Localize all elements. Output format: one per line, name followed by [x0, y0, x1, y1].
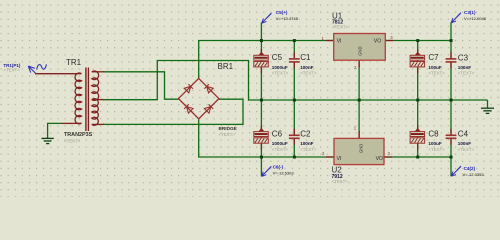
- svg-text:100nF: 100nF: [300, 65, 313, 70]
- svg-text:<TEXT>: <TEXT>: [272, 147, 289, 152]
- svg-text:<TEXT>: <TEXT>: [219, 132, 236, 137]
- svg-text:TR1: TR1: [66, 58, 82, 67]
- svg-text:C3: C3: [458, 53, 469, 62]
- svg-text:100uF: 100uF: [428, 141, 441, 146]
- svg-text:<TEXT>: <TEXT>: [458, 147, 475, 152]
- svg-text:C6: C6: [272, 129, 283, 138]
- svg-text:100nF: 100nF: [458, 141, 471, 146]
- svg-text:VI: VI: [337, 38, 342, 44]
- svg-text:C2: C2: [300, 129, 311, 138]
- svg-text:<TEXT>: <TEXT>: [300, 71, 317, 76]
- svg-text:<TEXT>: <TEXT>: [428, 147, 445, 152]
- svg-text:BR1: BR1: [218, 62, 234, 71]
- svg-text:<TEXT>: <TEXT>: [64, 138, 81, 143]
- svg-text:V=+13.4748: V=+13.4748: [276, 16, 299, 21]
- svg-text:1000uF: 1000uF: [272, 141, 288, 146]
- svg-text:100nF: 100nF: [458, 65, 471, 70]
- svg-text:GND: GND: [358, 144, 363, 153]
- svg-text:C4(2): C4(2): [464, 166, 476, 171]
- svg-text:V=-12.0353: V=-12.0353: [463, 172, 485, 177]
- svg-text:1000uF: 1000uF: [272, 65, 288, 70]
- svg-text:VO: VO: [376, 156, 384, 162]
- svg-text:V=+12.0046: V=+12.0046: [464, 16, 487, 21]
- svg-text:<TEXT>: <TEXT>: [332, 25, 349, 30]
- svg-text:<TEXT>: <TEXT>: [300, 147, 317, 152]
- svg-text:V=-13.5303: V=-13.5303: [273, 171, 295, 176]
- svg-text:TRAN2P3S: TRAN2P3S: [64, 132, 93, 138]
- svg-text:VI: VI: [337, 156, 342, 162]
- svg-text:C3(1): C3(1): [464, 10, 476, 15]
- svg-text:C6(-): C6(-): [273, 165, 284, 170]
- svg-text:C7: C7: [428, 53, 439, 62]
- svg-text:C1: C1: [300, 53, 311, 62]
- svg-text:100nF: 100nF: [300, 141, 313, 146]
- svg-text:<TEXT>: <TEXT>: [428, 71, 445, 76]
- svg-text:C5: C5: [272, 53, 283, 62]
- svg-text:C5(+): C5(+): [276, 10, 288, 15]
- svg-text:<TEXT>: <TEXT>: [3, 68, 20, 73]
- svg-text:100uF: 100uF: [428, 65, 441, 70]
- svg-text:<TEXT>: <TEXT>: [272, 71, 289, 76]
- svg-text:BRIDGE: BRIDGE: [219, 126, 237, 131]
- svg-text:VO: VO: [374, 38, 382, 44]
- svg-text:<TEXT>: <TEXT>: [458, 71, 475, 76]
- svg-text:C8: C8: [428, 129, 439, 138]
- svg-text:<TEXT>: <TEXT>: [332, 179, 349, 184]
- svg-text:GND: GND: [357, 46, 362, 55]
- svg-text:C4: C4: [458, 130, 469, 139]
